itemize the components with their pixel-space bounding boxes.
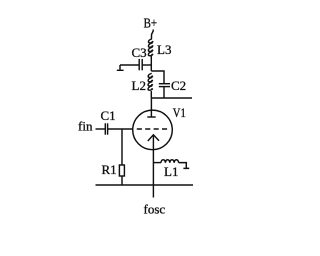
svg-text:fosc: fosc [144, 202, 166, 217]
wire C3 right lead to node [142, 64, 151, 66]
wire node down to tube plate [150, 98, 152, 117]
svg-text:C1: C1 [101, 108, 116, 123]
svg-text:L2: L2 [132, 78, 146, 93]
svg-text:B+: B+ [144, 16, 158, 31]
svg-text:V1: V1 [173, 105, 186, 120]
cathode arrow of V1 [148, 135, 159, 141]
svg-text:L1: L1 [164, 164, 178, 179]
wire L3 bottom to node [150, 56, 152, 71]
terminal stub left of C3 [117, 65, 124, 70]
grid dashed line of V1 [137, 128, 167, 130]
inductor L3 [148, 39, 153, 56]
inductor L2 [148, 73, 153, 90]
wire fin to C1 [96, 128, 106, 130]
inductor L1 junction knots [165, 161, 167, 163]
plate bar of V1 [147, 116, 155, 118]
svg-text:fin: fin [78, 119, 93, 134]
wire C3 left lead [120, 64, 139, 66]
tube V1 envelope [133, 110, 173, 150]
svg-text:L3: L3 [157, 42, 171, 57]
wire branch cathode to L1 [153, 162, 161, 164]
wire R1 branch down [121, 129, 123, 165]
svg-text:C3: C3 [132, 45, 147, 60]
resistor R1 box [119, 165, 124, 176]
capacitor C1 [104, 123, 106, 134]
inductor L1 [161, 160, 179, 163]
wire L2 bottom node to right stub [151, 91, 192, 98]
capacitor C2 [159, 83, 170, 85]
wire L1 right lead with terminal [179, 163, 190, 169]
capacitor C3 [138, 59, 140, 70]
wire C2 bottom lead [163, 87, 165, 98]
grid lead wire to left [108, 128, 133, 130]
ground rail wire [96, 184, 194, 186]
svg-text:C2: C2 [171, 78, 186, 93]
wire B+ down to L3 [152, 30, 154, 39]
wire R1 bottom to rail [121, 176, 123, 185]
cathode lead down [152, 135, 154, 198]
svg-text:R1: R1 [102, 162, 117, 177]
wire node to C2 branch [151, 71, 164, 84]
